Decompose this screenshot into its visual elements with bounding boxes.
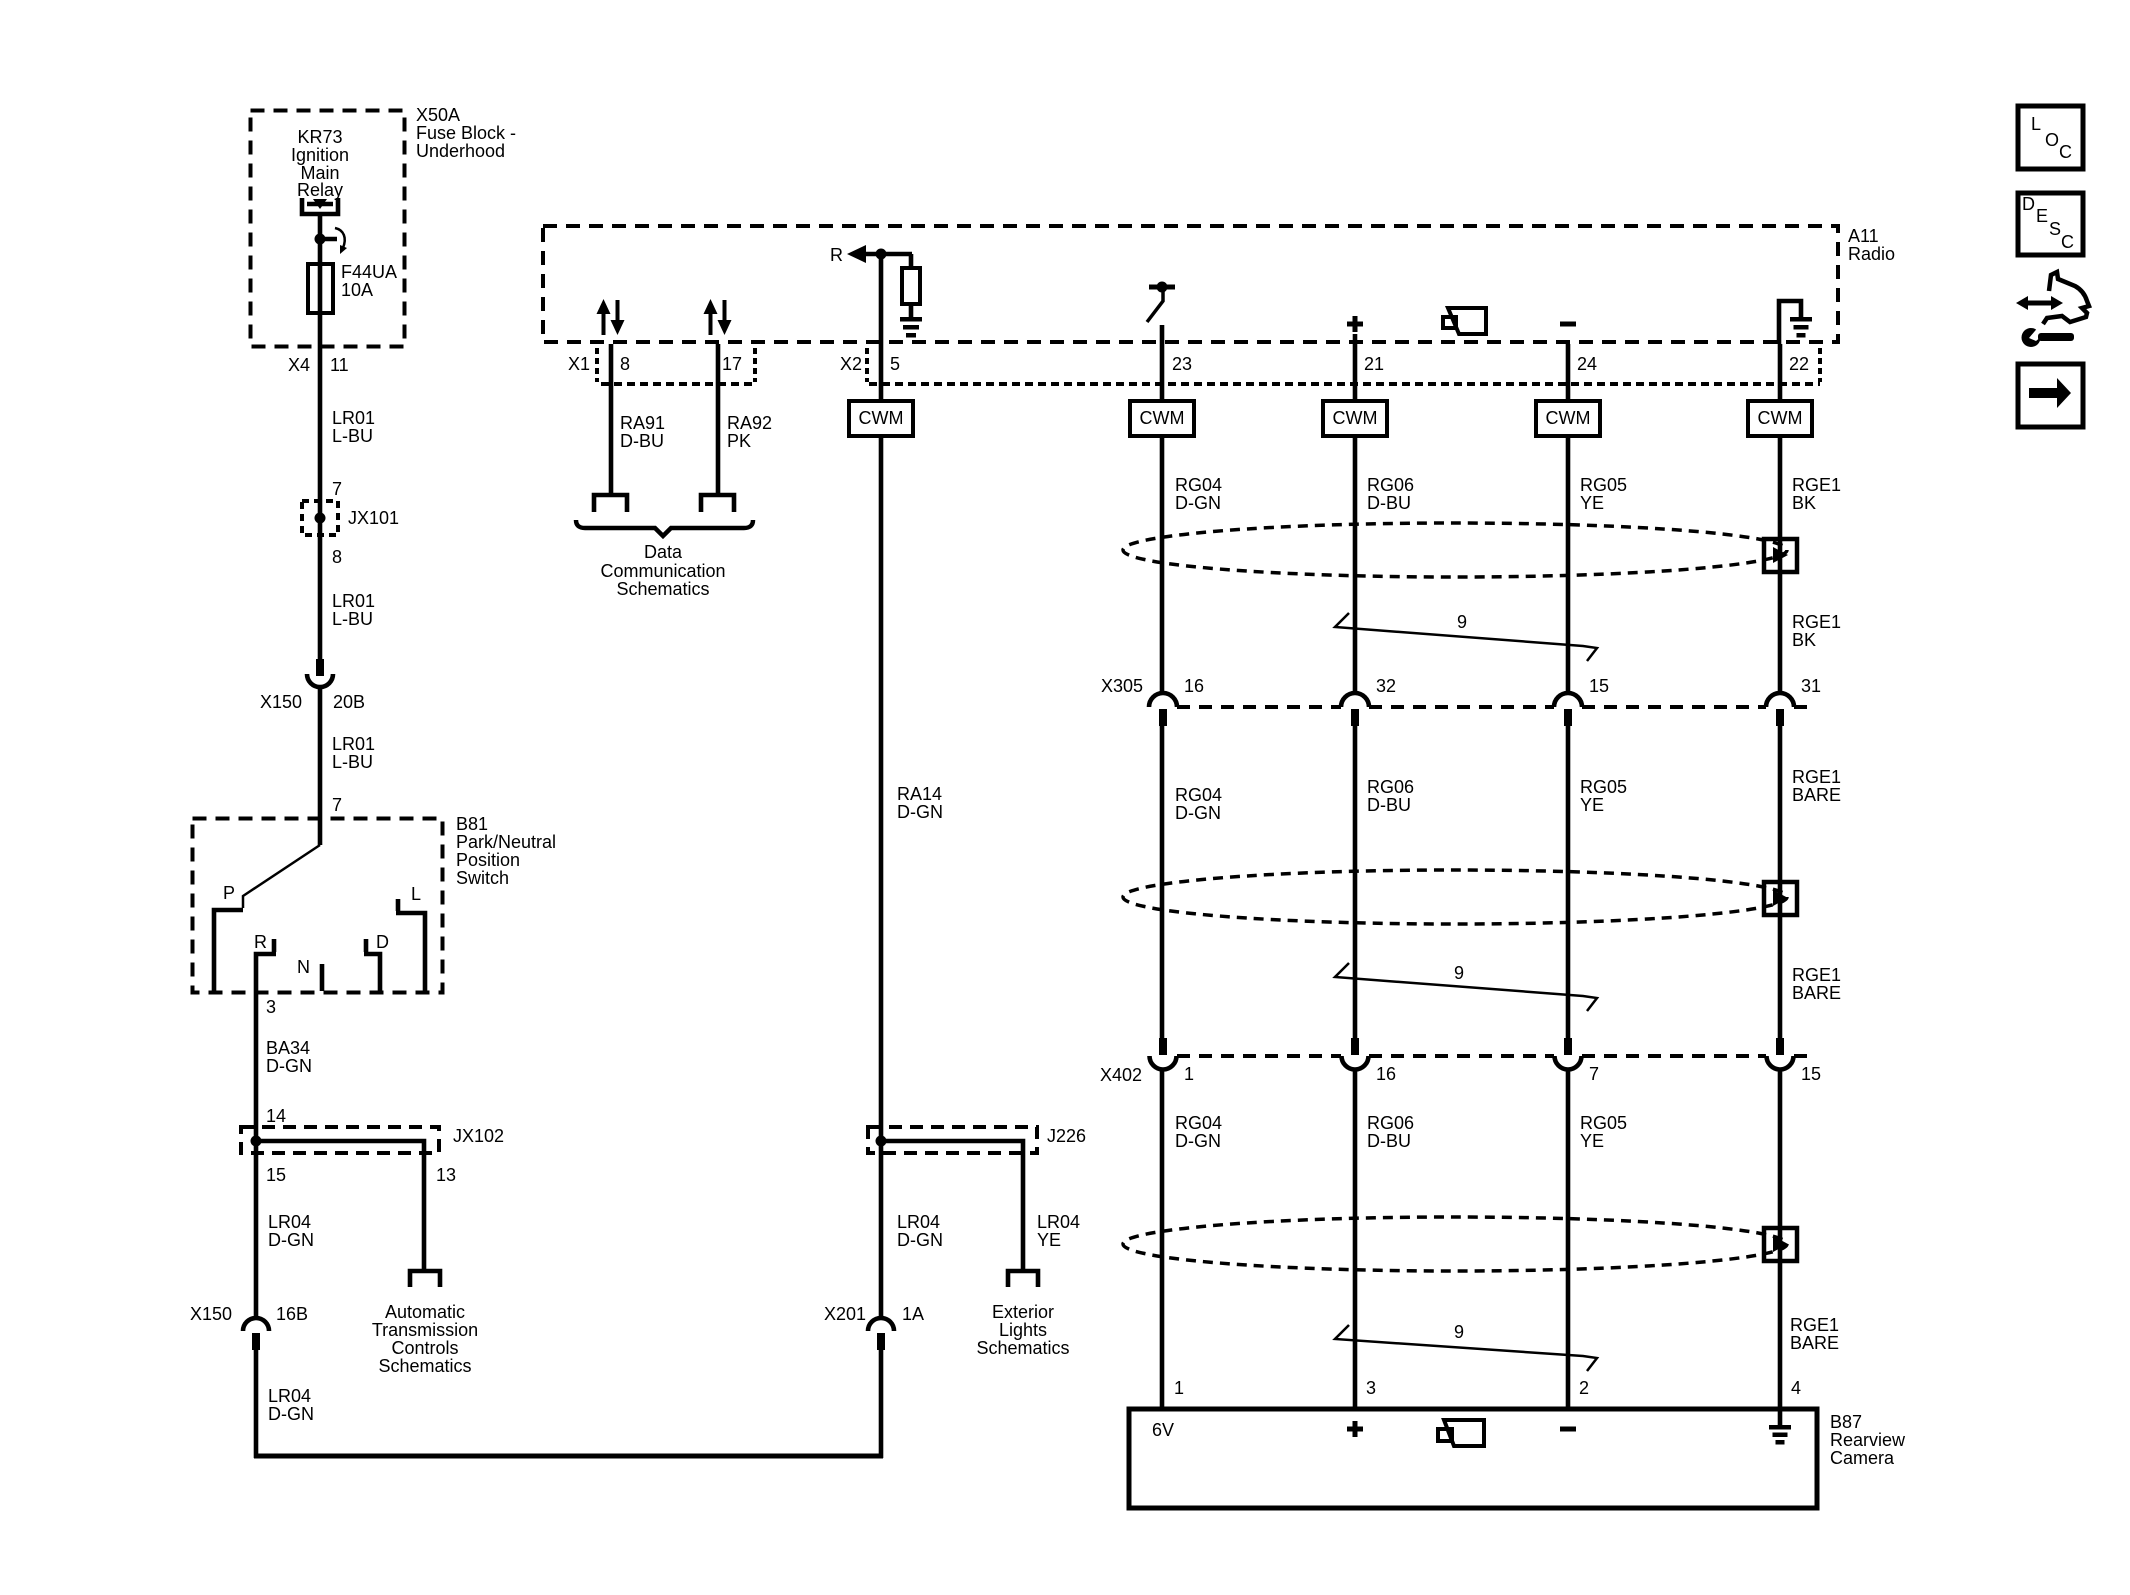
svg-text:RA14: RA14 xyxy=(897,784,942,804)
svg-text:8: 8 xyxy=(332,547,342,567)
svg-text:1: 1 xyxy=(1184,1064,1194,1084)
svg-text:RG04: RG04 xyxy=(1175,475,1222,495)
svg-text:RA91: RA91 xyxy=(620,413,665,433)
svg-text:E: E xyxy=(2036,206,2048,226)
svg-text:9: 9 xyxy=(1454,963,1464,983)
svg-text:PK: PK xyxy=(727,431,751,451)
svg-text:14: 14 xyxy=(266,1106,286,1126)
svg-text:B87: B87 xyxy=(1830,1412,1862,1432)
svg-text:13: 13 xyxy=(436,1165,456,1185)
svg-text:C: C xyxy=(2061,232,2074,252)
svg-text:D-BU: D-BU xyxy=(1367,493,1411,513)
svg-text:N: N xyxy=(297,957,310,977)
svg-text:7: 7 xyxy=(1589,1064,1599,1084)
svg-text:Exterior: Exterior xyxy=(992,1302,1054,1322)
svg-text:Schematics: Schematics xyxy=(976,1338,1069,1358)
svg-text:3: 3 xyxy=(1366,1378,1376,1398)
svg-text:3: 3 xyxy=(266,997,276,1017)
svg-text:Underhood: Underhood xyxy=(416,141,505,161)
svg-text:L-BU: L-BU xyxy=(332,426,373,446)
svg-text:1A: 1A xyxy=(902,1304,924,1324)
svg-text:Position: Position xyxy=(456,850,520,870)
svg-text:20B: 20B xyxy=(333,692,365,712)
svg-text:RGE1: RGE1 xyxy=(1792,767,1841,787)
svg-text:CWM: CWM xyxy=(1333,408,1378,428)
svg-text:7: 7 xyxy=(332,479,342,499)
svg-text:CWM: CWM xyxy=(1546,408,1591,428)
svg-text:10A: 10A xyxy=(341,280,373,300)
svg-text:D-GN: D-GN xyxy=(268,1404,314,1424)
svg-text:21: 21 xyxy=(1364,354,1384,374)
svg-text:P: P xyxy=(223,883,235,903)
svg-text:L-BU: L-BU xyxy=(332,609,373,629)
svg-text:YE: YE xyxy=(1037,1230,1061,1250)
svg-text:23: 23 xyxy=(1172,354,1192,374)
svg-text:BK: BK xyxy=(1792,630,1816,650)
svg-text:S: S xyxy=(2049,219,2061,239)
svg-text:16B: 16B xyxy=(276,1304,308,1324)
svg-text:7: 7 xyxy=(332,795,342,815)
svg-text:Radio: Radio xyxy=(1848,244,1895,264)
svg-text:RG05: RG05 xyxy=(1580,777,1627,797)
svg-text:LR04: LR04 xyxy=(268,1386,311,1406)
svg-text:Schematics: Schematics xyxy=(616,579,709,599)
svg-text:1: 1 xyxy=(1174,1378,1184,1398)
svg-text:YE: YE xyxy=(1580,1131,1604,1151)
svg-text:B81: B81 xyxy=(456,814,488,834)
svg-text:Park/Neutral: Park/Neutral xyxy=(456,832,556,852)
svg-text:CWM: CWM xyxy=(859,408,904,428)
svg-text:LR04: LR04 xyxy=(1037,1212,1080,1232)
svg-text:L: L xyxy=(411,884,421,904)
svg-text:CWM: CWM xyxy=(1758,408,1803,428)
svg-text:F44UA: F44UA xyxy=(341,262,397,282)
svg-text:D-GN: D-GN xyxy=(266,1056,312,1076)
svg-text:R: R xyxy=(830,245,843,265)
svg-text:BARE: BARE xyxy=(1792,785,1841,805)
svg-text:RG06: RG06 xyxy=(1367,475,1414,495)
svg-text:9: 9 xyxy=(1457,612,1467,632)
svg-text:X150: X150 xyxy=(190,1304,232,1324)
svg-text:J226: J226 xyxy=(1047,1126,1086,1146)
svg-text:D-GN: D-GN xyxy=(897,1230,943,1250)
svg-text:BK: BK xyxy=(1792,493,1816,513)
svg-text:Lights: Lights xyxy=(999,1320,1047,1340)
svg-text:2: 2 xyxy=(1579,1378,1589,1398)
svg-text:15: 15 xyxy=(1589,676,1609,696)
svg-text:RGE1: RGE1 xyxy=(1790,1315,1839,1335)
svg-text:32: 32 xyxy=(1376,676,1396,696)
svg-text:RGE1: RGE1 xyxy=(1792,475,1841,495)
svg-text:RG04: RG04 xyxy=(1175,785,1222,805)
svg-text:BARE: BARE xyxy=(1790,1333,1839,1353)
svg-text:Schematics: Schematics xyxy=(378,1356,471,1376)
svg-text:6V: 6V xyxy=(1152,1420,1174,1440)
svg-text:YE: YE xyxy=(1580,493,1604,513)
svg-text:D: D xyxy=(376,932,389,952)
svg-text:X305: X305 xyxy=(1101,676,1143,696)
svg-text:L: L xyxy=(2031,114,2041,134)
svg-text:RGE1: RGE1 xyxy=(1792,965,1841,985)
svg-text:R: R xyxy=(254,932,267,952)
svg-text:D-GN: D-GN xyxy=(268,1230,314,1250)
svg-text:Relay: Relay xyxy=(297,180,343,200)
svg-text:5: 5 xyxy=(890,354,900,374)
svg-text:D-GN: D-GN xyxy=(1175,493,1221,513)
svg-text:A11: A11 xyxy=(1848,226,1879,246)
svg-text:Camera: Camera xyxy=(1830,1448,1895,1468)
svg-text:4: 4 xyxy=(1791,1378,1801,1398)
svg-text:BARE: BARE xyxy=(1792,983,1841,1003)
svg-text:D: D xyxy=(2022,194,2035,214)
svg-text:KR73: KR73 xyxy=(297,127,342,147)
svg-text:X201: X201 xyxy=(824,1304,866,1324)
svg-text:LR01: LR01 xyxy=(332,408,375,428)
svg-text:RGE1: RGE1 xyxy=(1792,612,1841,632)
svg-text:Fuse Block -: Fuse Block - xyxy=(416,123,516,143)
svg-text:YE: YE xyxy=(1580,795,1604,815)
svg-text:Controls: Controls xyxy=(391,1338,458,1358)
svg-text:Transmission: Transmission xyxy=(372,1320,478,1340)
svg-text:X1: X1 xyxy=(568,354,590,374)
svg-text:LR01: LR01 xyxy=(332,734,375,754)
svg-text:11: 11 xyxy=(330,355,349,375)
svg-text:L-BU: L-BU xyxy=(332,752,373,772)
svg-text:RG05: RG05 xyxy=(1580,475,1627,495)
svg-text:RG04: RG04 xyxy=(1175,1113,1222,1133)
svg-text:X402: X402 xyxy=(1100,1065,1142,1085)
svg-text:X2: X2 xyxy=(840,354,862,374)
svg-text:X150: X150 xyxy=(260,692,302,712)
svg-text:31: 31 xyxy=(1801,676,1821,696)
svg-text:D-GN: D-GN xyxy=(897,802,943,822)
svg-text:15: 15 xyxy=(1801,1064,1821,1084)
svg-text:D-BU: D-BU xyxy=(620,431,664,451)
svg-text:JX101: JX101 xyxy=(348,508,399,528)
svg-text:15: 15 xyxy=(266,1165,286,1185)
svg-text:Communication: Communication xyxy=(600,561,725,581)
svg-text:17: 17 xyxy=(722,354,742,374)
svg-text:CWM: CWM xyxy=(1140,408,1185,428)
svg-text:22: 22 xyxy=(1789,354,1809,374)
svg-text:O: O xyxy=(2045,130,2059,150)
svg-text:Automatic: Automatic xyxy=(385,1302,465,1322)
svg-text:24: 24 xyxy=(1577,354,1597,374)
svg-text:D-BU: D-BU xyxy=(1367,795,1411,815)
svg-text:D-GN: D-GN xyxy=(1175,803,1221,823)
svg-text:X50A: X50A xyxy=(416,105,460,125)
svg-text:RG06: RG06 xyxy=(1367,1113,1414,1133)
svg-text:Rearview: Rearview xyxy=(1830,1430,1906,1450)
svg-text:Data: Data xyxy=(644,542,683,562)
svg-text:LR04: LR04 xyxy=(268,1212,311,1232)
svg-text:Ignition: Ignition xyxy=(291,145,349,165)
svg-text:X4: X4 xyxy=(288,355,310,375)
svg-text:RA92: RA92 xyxy=(727,413,772,433)
svg-text:C: C xyxy=(2059,142,2072,162)
svg-text:8: 8 xyxy=(620,354,630,374)
svg-text:JX102: JX102 xyxy=(453,1126,504,1146)
svg-text:RG05: RG05 xyxy=(1580,1113,1627,1133)
svg-text:16: 16 xyxy=(1184,676,1204,696)
svg-text:LR04: LR04 xyxy=(897,1212,940,1232)
svg-text:D-GN: D-GN xyxy=(1175,1131,1221,1151)
svg-text:9: 9 xyxy=(1454,1322,1464,1342)
svg-text:Switch: Switch xyxy=(456,868,509,888)
svg-text:D-BU: D-BU xyxy=(1367,1131,1411,1151)
svg-text:LR01: LR01 xyxy=(332,591,375,611)
svg-text:RG06: RG06 xyxy=(1367,777,1414,797)
svg-text:BA34: BA34 xyxy=(266,1038,310,1058)
svg-text:16: 16 xyxy=(1376,1064,1396,1084)
